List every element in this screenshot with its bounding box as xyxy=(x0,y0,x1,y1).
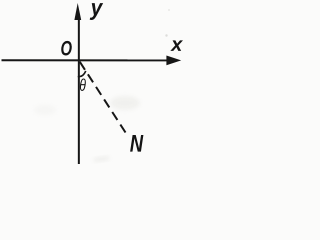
x-axis arrowhead xyxy=(166,56,181,66)
origin label O xyxy=(61,41,72,56)
faint scan smudge 2 xyxy=(34,105,56,115)
y-axis line xyxy=(78,16,80,164)
angle arc xyxy=(78,71,86,77)
y-axis arrowhead xyxy=(74,3,81,20)
point label N xyxy=(130,135,143,152)
faint speck near x label xyxy=(165,34,167,36)
dashed line ON xyxy=(80,62,126,133)
faint speck top right xyxy=(168,9,170,11)
x-axis line xyxy=(2,59,169,61)
faint scan smudge 1 xyxy=(110,96,140,110)
x-axis label x xyxy=(170,40,183,51)
faint scan smudge 3 xyxy=(94,156,109,162)
y-axis label y xyxy=(90,3,103,20)
angle label theta xyxy=(80,78,86,90)
